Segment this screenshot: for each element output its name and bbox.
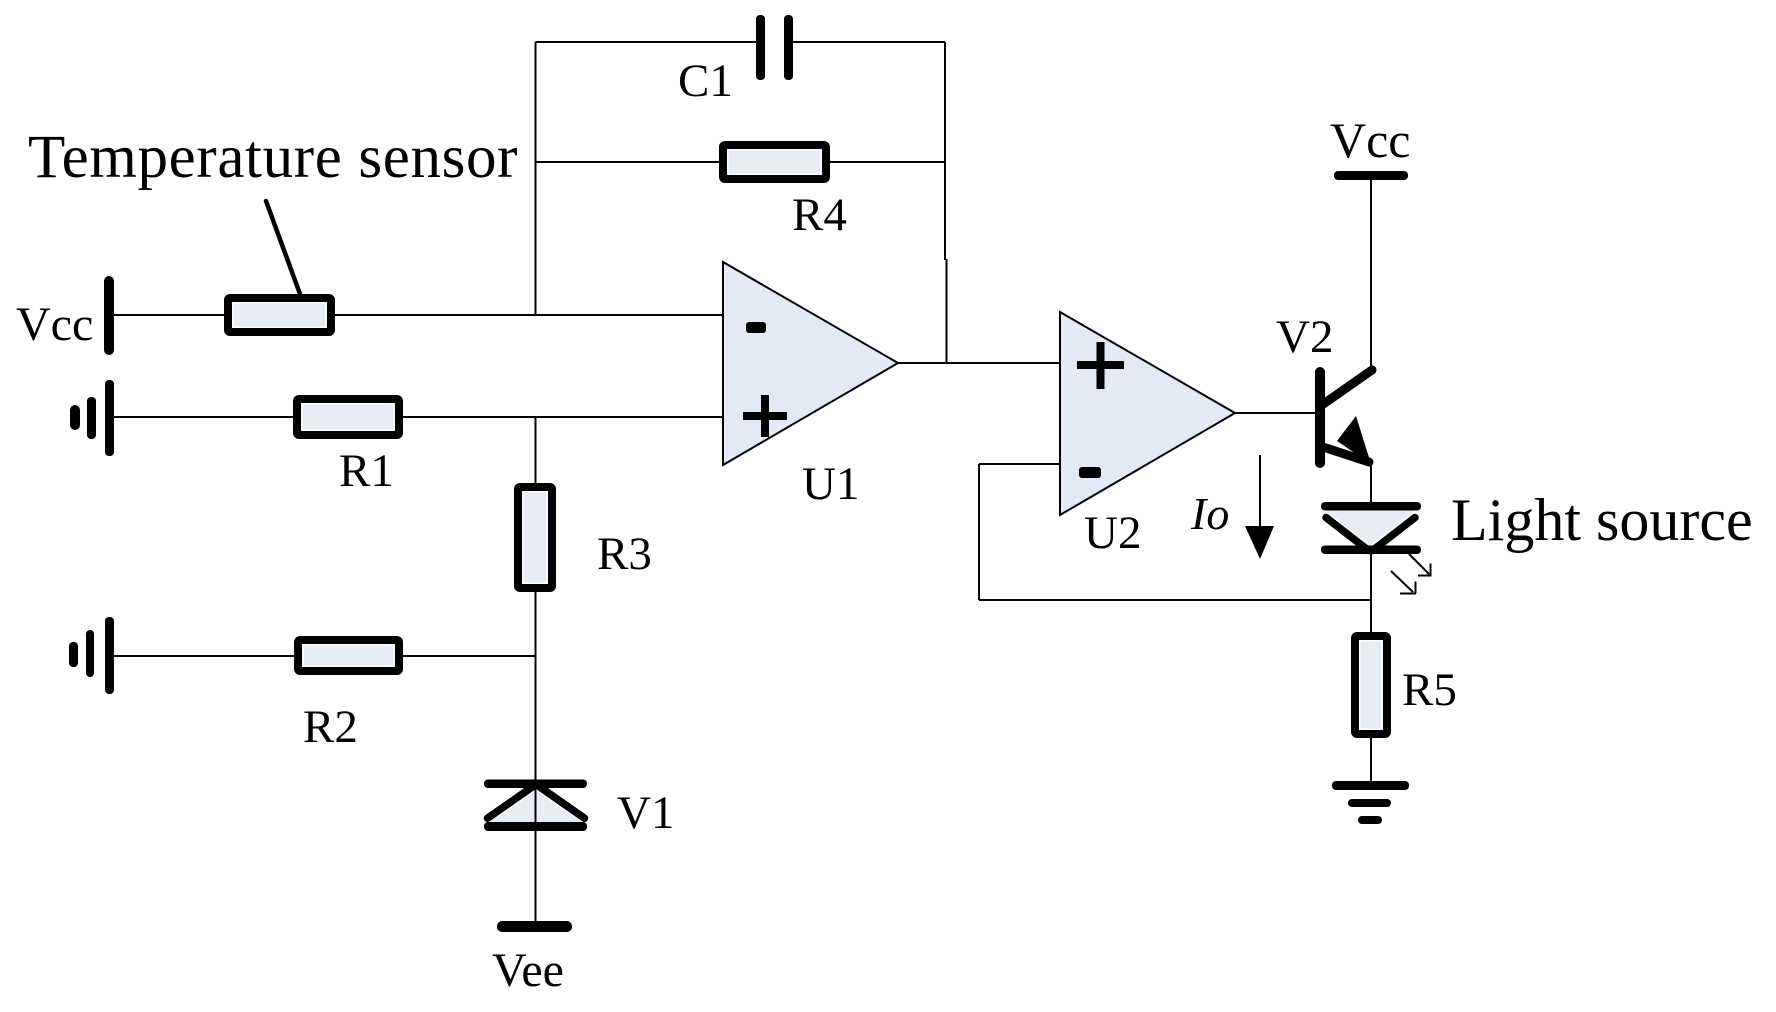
LED left slant stroke (1326, 518, 1369, 551)
zener diode V1 left slant stroke (488, 787, 533, 819)
wire R5 to ground (1370, 738, 1372, 782)
wire ground to R1 (114, 416, 293, 418)
LED light ray 2 (1391, 571, 1416, 594)
LED anode bar (1321, 502, 1421, 511)
svg-text:R5: R5 (1402, 664, 1457, 716)
wire Vcc to V2 collector (1370, 180, 1372, 371)
LED right slant stroke (1373, 518, 1416, 551)
svg-text:V1: V1 (617, 787, 674, 839)
svg-text:Light source: Light source (1451, 487, 1753, 553)
wire Vcc to temperature sensor (114, 314, 224, 316)
wire sensor to U1 inverting input (335, 314, 723, 316)
resistor R3 (518, 487, 552, 588)
Io arrowhead (1245, 526, 1274, 559)
wire through V1 to Vee (535, 788, 537, 921)
temperature sensor body (228, 298, 331, 332)
transistor V2 emitter stroke (1323, 447, 1369, 462)
U2 minus input symbol (1079, 467, 1101, 478)
wire: R4 row left (536, 161, 724, 163)
resistor R2 (298, 640, 399, 671)
svg-text:R1: R1 (339, 445, 394, 497)
zener diode V1 anode bar (484, 822, 587, 831)
transistor V2 collector stroke (1322, 370, 1372, 405)
Vee bar (497, 921, 572, 932)
svg-text:Temperature sensor: Temperature sensor (28, 124, 518, 191)
wire: C1 right to right vertical (792, 41, 945, 43)
svg-text:U1: U1 (802, 458, 859, 510)
ground symbol upper left (70, 380, 114, 456)
zener diode V1 right slant stroke (540, 787, 585, 819)
wire R2 to R3 node (403, 655, 536, 657)
pointer line from label to sensor (266, 201, 300, 294)
capacitor C1 (756, 15, 793, 80)
wire U2 inverting input (979, 463, 1060, 465)
Io arrow shaft (1259, 455, 1261, 527)
svg-text:R3: R3 (597, 528, 652, 580)
LED light ray 1 (1409, 554, 1432, 576)
LED cathode bar (1321, 546, 1421, 555)
wire: right vertical lower segment (946, 259, 948, 363)
U2 plus input symbol (1077, 342, 1124, 389)
svg-text:V2: V2 (1276, 311, 1333, 363)
resistor R1 (297, 399, 399, 435)
wire: R4 row right (830, 161, 945, 163)
transistor V2 emitter arrowhead (1337, 416, 1371, 464)
svg-text:R2: R2 (303, 701, 358, 753)
wire: right vertical feedback branch (944, 42, 946, 260)
Vcc bar right (1334, 171, 1408, 180)
zener diode V1 cathode bar (484, 780, 587, 789)
resistor R4 (723, 145, 826, 179)
svg-text:U2: U2 (1084, 507, 1141, 559)
wire: node to R3 top (535, 417, 537, 483)
wire U2 output to V2 base (1235, 412, 1315, 414)
wire LED to R5 (1370, 554, 1372, 632)
op-amp U2 (1060, 312, 1235, 515)
wire feedback vertical (978, 464, 980, 600)
wire U1 output to U2 (898, 362, 1060, 364)
svg-text:Vcc: Vcc (16, 298, 93, 351)
wire: left vertical feedback branch (535, 42, 537, 316)
U1 plus input symbol (743, 395, 787, 437)
zener diode V1 triangle fill (487, 791, 585, 824)
wire: top to C1 left (536, 41, 758, 43)
resistor R5 (1355, 636, 1387, 734)
U1 minus input symbol (746, 322, 766, 333)
svg-text:Io: Io (1190, 488, 1229, 539)
ground symbol right (1332, 781, 1409, 824)
wire ground to R2 (114, 655, 294, 657)
svg-text:R4: R4 (792, 189, 847, 241)
wire R1 to U1 non-inverting input (403, 416, 723, 418)
Vcc bar left (104, 276, 114, 355)
wire: R3 bottom to V1 (535, 592, 537, 780)
svg-text:Vee: Vee (492, 944, 564, 997)
wire feedback horizontal (979, 599, 1371, 601)
LED triangle fill (1326, 511, 1415, 546)
svg-text:C1: C1 (678, 55, 733, 107)
ground symbol lower left (69, 617, 114, 694)
op-amp U1 (723, 262, 898, 465)
svg-text:Vcc: Vcc (1330, 112, 1411, 168)
wire emitter to LED (1370, 462, 1372, 502)
transistor V2 base bar (1315, 367, 1325, 468)
